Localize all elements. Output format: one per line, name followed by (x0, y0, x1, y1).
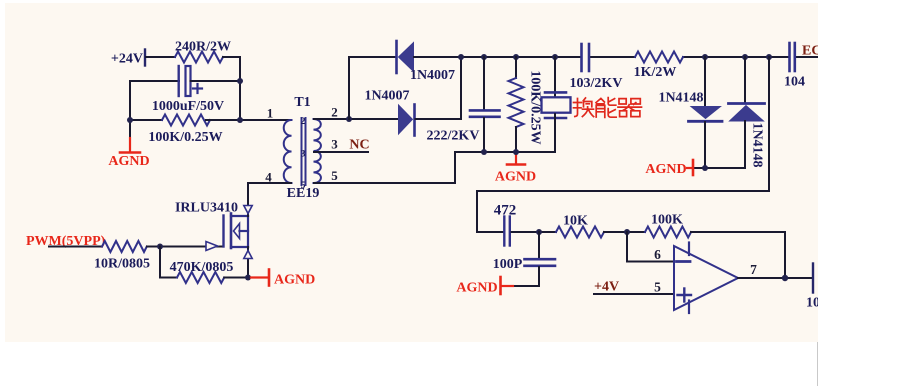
node dot output/feedback (782, 275, 788, 281)
svg-text:1000uF/50V: 1000uF/50V (152, 99, 224, 114)
svg-text:470K/0805: 470K/0805 (170, 260, 234, 275)
svg-text:EE19: EE19 (287, 186, 320, 201)
svg-text:100P: 100P (493, 257, 523, 272)
ground AGND (diode tie) (645, 160, 693, 177)
transformer T1 primary winding (284, 95, 311, 183)
svg-text:1N4148: 1N4148 (658, 91, 703, 106)
ground AGND (100P) (456, 277, 513, 296)
node dot at 100K row right (237, 117, 243, 123)
svg-text:IRLU3410: IRLU3410 (175, 201, 238, 216)
node dot 10K/100K/pin6 (624, 229, 630, 235)
diode D 1N4148 left (658, 57, 722, 168)
ground AGND (left) (108, 138, 149, 169)
op-amp U1 (674, 243, 738, 314)
wire +24V to R 240R (146, 56, 175, 58)
node dot rail x484 (481, 54, 487, 60)
node dot pin2 branch (346, 116, 352, 122)
svg-text:+24V: +24V (111, 52, 143, 67)
wire 100K to feedback drop (691, 232, 785, 278)
capacitor C 103/2KV (570, 44, 623, 91)
node dot rail x745 (742, 54, 748, 60)
resistor 470K/0805 (170, 260, 234, 283)
node dot at 100K row left (127, 117, 133, 123)
node dot source/470K (245, 275, 251, 281)
wire 472 to 10K (512, 231, 557, 233)
wire pin5 to bottom rail (314, 152, 555, 183)
resistor 100K/0.25W (148, 115, 222, 146)
wire 100P to AGND (514, 285, 539, 287)
wire PWM input (49, 246, 102, 248)
svg-text:1N4007: 1N4007 (364, 89, 409, 104)
resistor 1K/2W (634, 52, 683, 81)
drain arrow (244, 206, 252, 214)
wire cap row left (130, 80, 179, 82)
svg-text:1N4007: 1N4007 (410, 68, 455, 83)
svg-text:104: 104 (784, 75, 805, 90)
wire left branch vertical (129, 81, 131, 138)
wire 10R to gate (147, 246, 223, 248)
svg-text:AGND: AGND (495, 170, 536, 185)
capacitor C 222/2KV (427, 57, 500, 152)
wire node to 100K row (130, 119, 162, 121)
svg-text:NC: NC (349, 138, 369, 153)
svg-text:T1: T1 (294, 95, 310, 110)
wire source drop (247, 247, 249, 278)
wire pin6 branch (627, 232, 674, 262)
transformer T1 secondary winding (314, 119, 321, 183)
resistor 10R/0805 (94, 241, 150, 272)
diode D 1N4007 top (397, 41, 456, 83)
wire gate branch down (160, 247, 177, 278)
resistor 100K (645, 213, 691, 238)
wire 10K to 100K (604, 231, 645, 233)
wire pin2 row (314, 118, 397, 120)
svg-text:3: 3 (301, 150, 306, 160)
gate arrow (206, 242, 218, 251)
svg-text:100K/0.25W: 100K/0.25W (148, 130, 222, 145)
source arrow (244, 251, 252, 259)
node dot rail x555 (552, 54, 558, 60)
diode D 1N4007 lower (364, 89, 414, 136)
node dot bottom rail x484 (481, 149, 487, 155)
svg-text:100K/0.25W: 100K/0.25W (528, 70, 543, 144)
svg-text:10R/0805: 10R/0805 (94, 257, 150, 272)
node dot at cap row (237, 78, 243, 84)
capacitor C 472 (494, 203, 517, 246)
svg-text:5: 5 (331, 168, 338, 183)
label 换能器 (hand-drawn strokes) (574, 98, 642, 118)
wire feedback riser from rail (477, 57, 769, 232)
transformer core (301, 117, 306, 191)
capacitor C 100P (493, 232, 555, 286)
svg-text:3: 3 (331, 137, 338, 152)
svg-text:103/2KV: 103/2KV (570, 76, 623, 91)
node dot gate branch (157, 244, 163, 250)
svg-text:2: 2 (331, 105, 338, 120)
wire drain riser (247, 183, 249, 216)
wire cap row right (191, 80, 241, 82)
transducer (piezo) (542, 57, 571, 152)
node dot diode tie (702, 165, 708, 171)
table cell border line bottom right (817, 342, 819, 386)
svg-text:7: 7 (750, 262, 757, 277)
svg-text:AGND: AGND (274, 273, 315, 288)
node dot bottom rail x516 (513, 149, 519, 155)
wire top diode to rail node (414, 56, 461, 58)
wire 240R to corner down to node (223, 57, 240, 120)
ground AGND (MOSFET source) (251, 270, 315, 288)
wire pin4 to MOSFET drain (248, 183, 291, 217)
port output tick (812, 264, 814, 293)
wire 470K to source node (224, 277, 250, 279)
svg-text:AGND: AGND (108, 154, 149, 169)
svg-text:222/2KV: 222/2KV (427, 129, 480, 144)
wire top rail (461, 56, 581, 58)
svg-text:+4V: +4V (594, 280, 619, 295)
svg-text:472: 472 (494, 203, 517, 219)
node dot rail x461 (458, 54, 464, 60)
svg-text:240R/2W: 240R/2W (175, 40, 231, 55)
capacitor C 104 (784, 43, 805, 90)
resistor 240R/2W (175, 40, 231, 63)
node dot rail x516 (513, 54, 519, 60)
resistor 10K (556, 214, 604, 238)
capacitor C 1000uF/50V electrolytic (152, 66, 224, 114)
resistor 100K/0.25W vertical (509, 57, 543, 152)
svg-text:AGND: AGND (645, 162, 686, 177)
wire 100K to transformer pin 1 (206, 119, 291, 121)
svg-text:10K: 10K (563, 214, 588, 229)
port +24V (111, 50, 145, 67)
wire branch up from pin2 (349, 57, 395, 119)
transistor Q IRLU3410 (175, 201, 248, 249)
svg-text:100K: 100K (651, 213, 683, 228)
svg-text:1K/2W: 1K/2W (634, 65, 677, 80)
wire diode bottoms tie (695, 167, 745, 169)
wire op-amp output (738, 277, 811, 279)
node dot rail x705 (702, 54, 708, 60)
svg-text:AGND: AGND (456, 281, 497, 296)
wire pin2 diode to riser (416, 57, 462, 119)
wire +4V to pin5 (594, 293, 674, 295)
node dot rail x769 (766, 54, 772, 60)
wire pin3 NC stub (314, 151, 368, 153)
svg-text:2: 2 (301, 117, 306, 127)
diode D 1N4148 right (729, 57, 765, 168)
svg-text:5: 5 (654, 280, 661, 295)
node dot 472/100P (536, 229, 542, 235)
svg-text:1: 1 (267, 106, 274, 121)
schematic canvas background (5, 3, 818, 342)
svg-text:6: 6 (654, 247, 661, 262)
svg-text:1N4148: 1N4148 (750, 122, 765, 167)
white page margins (818, 0, 912, 386)
ground AGND (under transducer rail) (495, 152, 536, 185)
